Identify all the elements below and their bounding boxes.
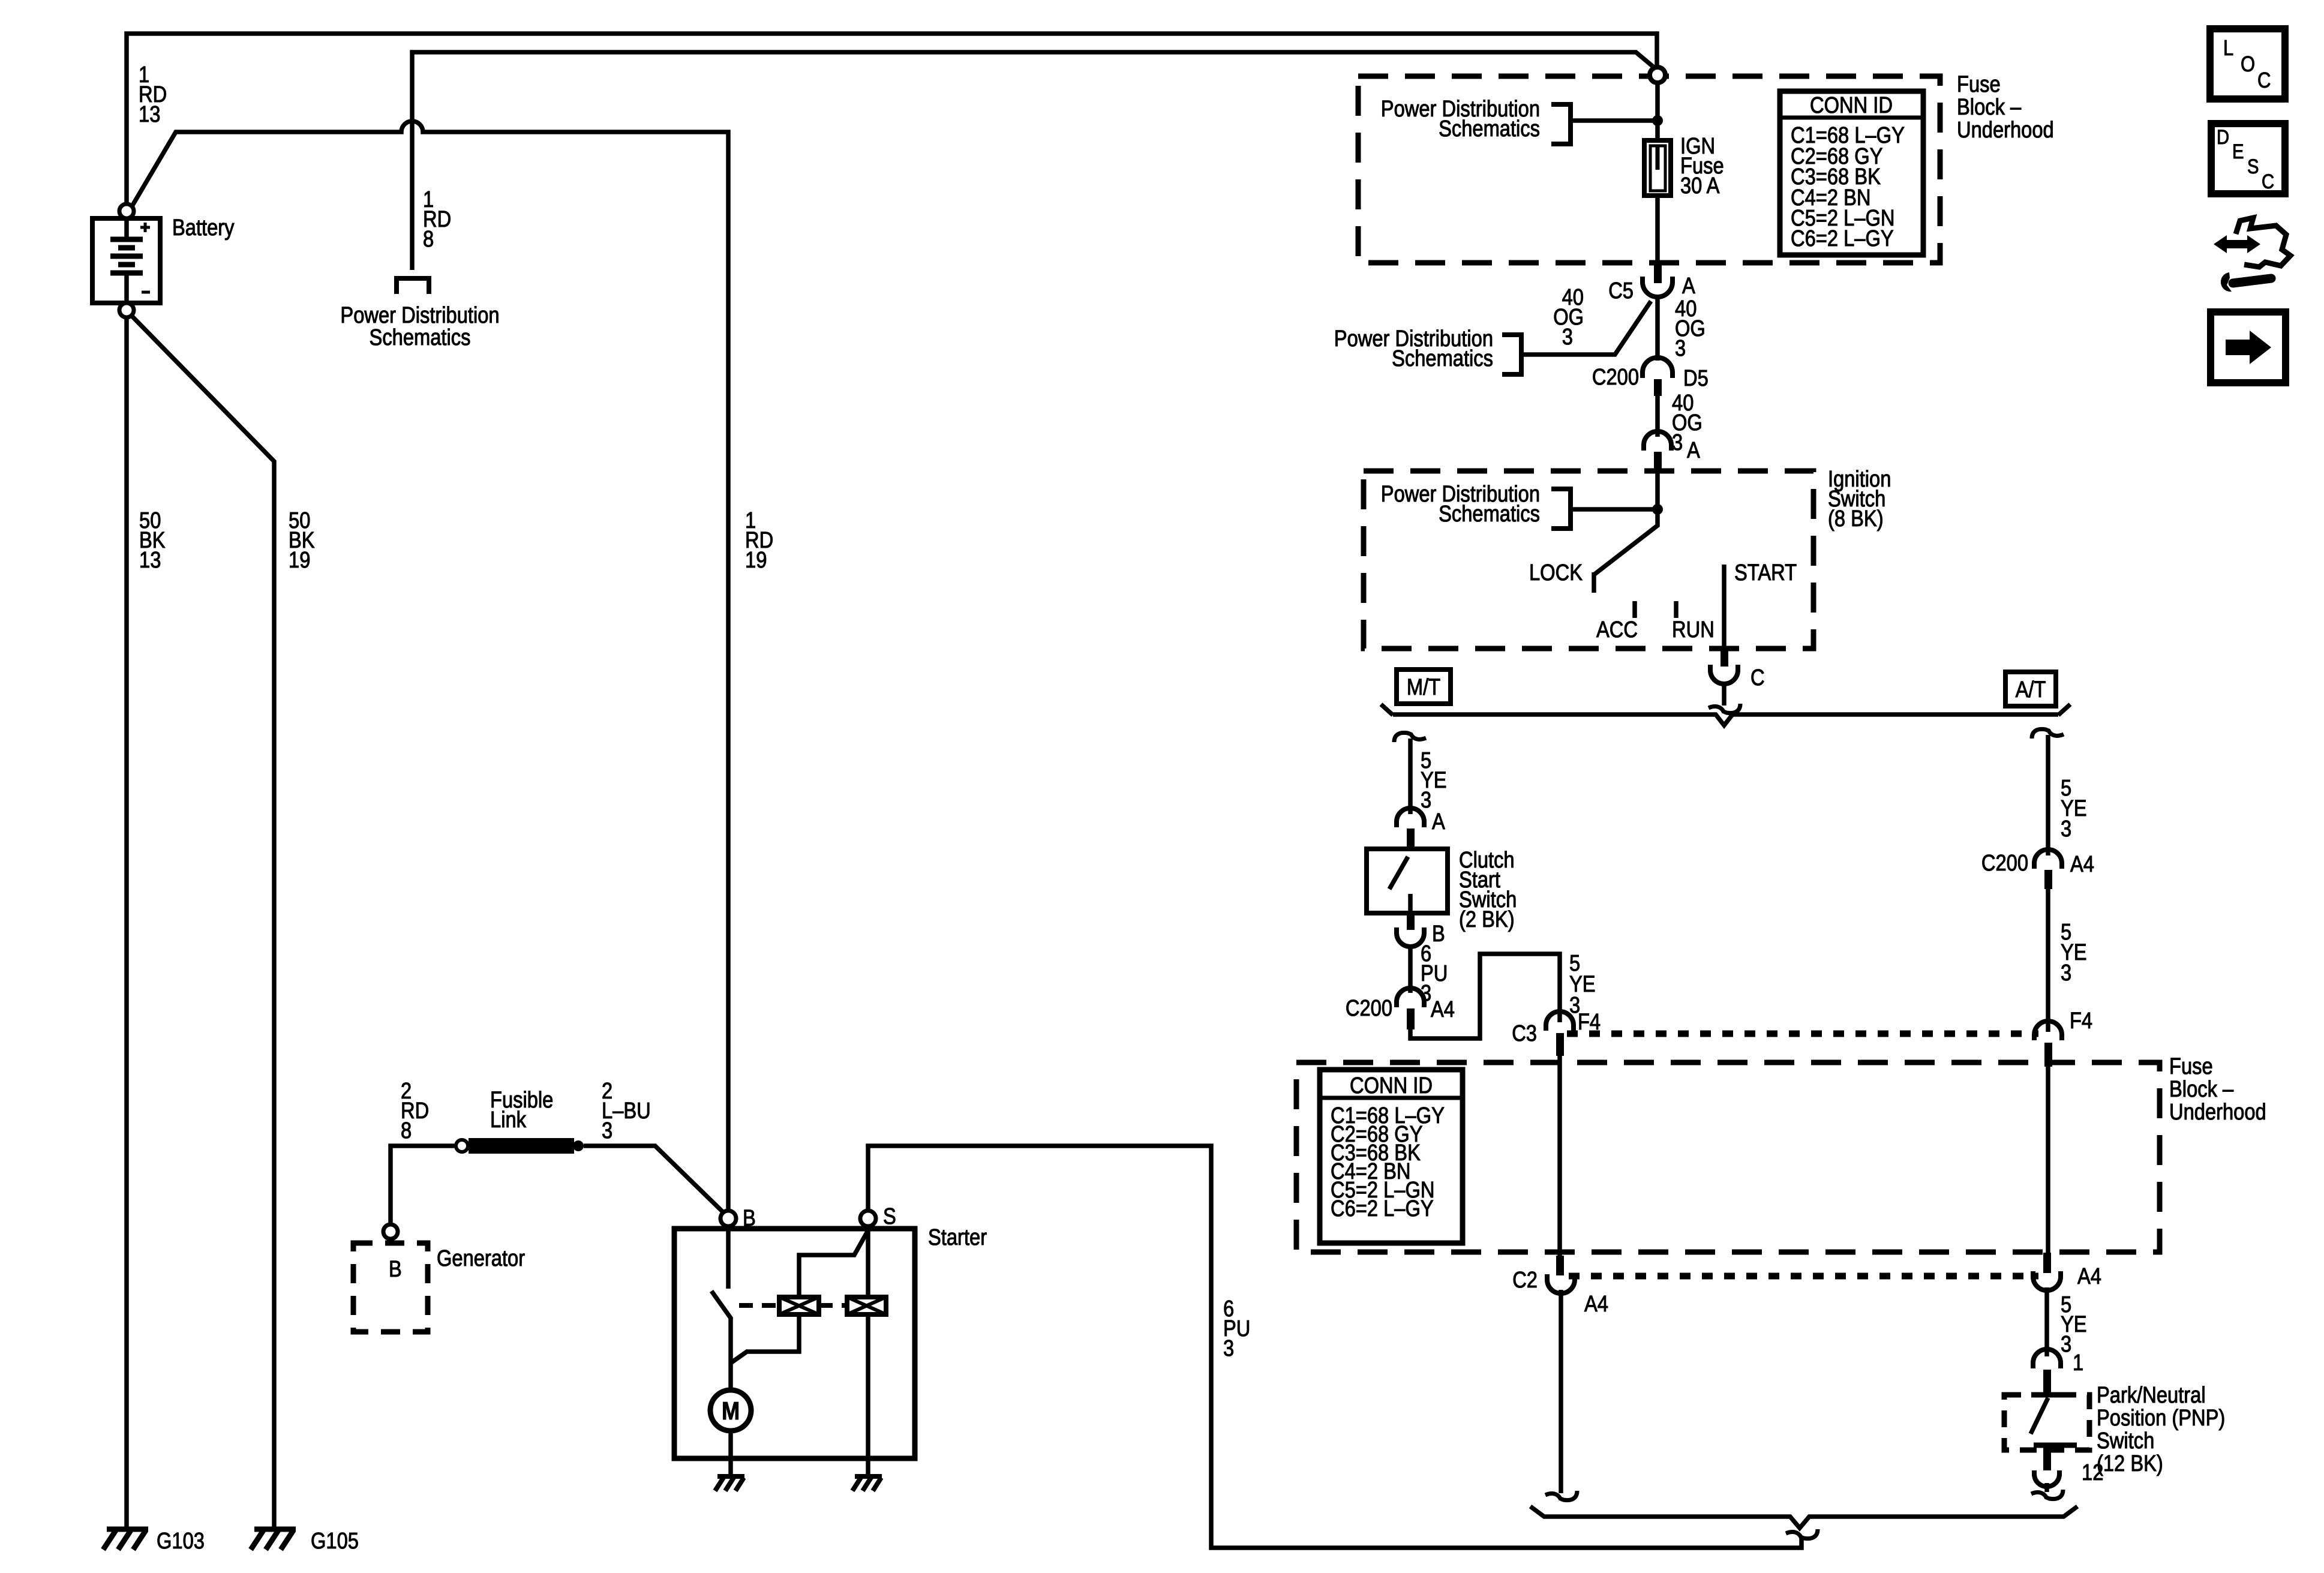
svg-text:B: B <box>743 1206 756 1231</box>
svg-text:A: A <box>1682 274 1695 299</box>
ground starter motor <box>715 1476 744 1491</box>
label D5 <box>1683 366 1709 391</box>
label 2 RD 8 <box>401 1079 429 1143</box>
battery <box>92 204 160 317</box>
ground G105 <box>251 1529 296 1550</box>
svg-text:C5: C5 <box>1608 278 1634 304</box>
wire C200 to ignition switch pin A <box>1655 396 1660 437</box>
wire battery negative to G103 <box>124 317 129 1529</box>
svg-text:A4: A4 <box>1584 1292 1608 1317</box>
svg-text:Block –: Block – <box>1957 95 2022 120</box>
svg-text:RUN: RUN <box>1672 617 1715 643</box>
svg-text:CONN ID: CONN ID <box>1810 93 1893 118</box>
label Power Distribution Schematics (fuse block) <box>1381 97 1540 142</box>
connector C200 pin A4 (M/T) <box>1397 988 1424 1029</box>
label Fusible Link <box>490 1088 553 1133</box>
svg-text:Schematics: Schematics <box>1439 502 1540 527</box>
svg-text:M: M <box>722 1397 740 1425</box>
connector C200 pin D5 <box>1643 358 1673 396</box>
label 40 OG 3 (left of C5) <box>1553 285 1584 350</box>
continuation curl at brace center <box>1786 1529 1818 1539</box>
continuation curl A/T branch <box>2032 729 2064 739</box>
wire A/T branch down to C200 <box>2046 735 2050 855</box>
svg-text:O: O <box>2241 52 2255 76</box>
svg-text:CONN ID: CONN ID <box>1350 1073 1433 1098</box>
svg-text:Schematics: Schematics <box>370 325 471 350</box>
connector C200 pin A4 (A/T) <box>2034 849 2062 889</box>
svg-text:A: A <box>1432 809 1445 834</box>
starter solenoid contact and motor wiring <box>711 1226 868 1476</box>
label A4 (C2) <box>1584 1292 1608 1317</box>
svg-text:D: D <box>2217 126 2229 149</box>
label 5 YE 3 (PNP) <box>2061 1292 2087 1357</box>
label Battery <box>172 215 235 241</box>
svg-text:A4: A4 <box>1431 997 1455 1022</box>
connector C5 pin A <box>1643 263 1673 297</box>
svg-text:C200: C200 <box>1346 996 1392 1021</box>
connector C2 pin A4 <box>1547 1256 1575 1293</box>
svg-text:C6=2 L–GY: C6=2 L–GY <box>1791 226 1894 251</box>
off-page bracket Power Distribution Schematics (40 OG branch) <box>1502 335 1521 374</box>
label 2 L-BU 3 <box>602 1079 651 1143</box>
label Starter <box>928 1225 987 1250</box>
svg-text:D5: D5 <box>1683 366 1709 391</box>
wire C200 to F4 <box>2046 889 2050 1032</box>
label C200 (M/T) <box>1346 996 1392 1021</box>
svg-text:19: 19 <box>745 548 767 573</box>
svg-text:A4: A4 <box>2070 852 2094 877</box>
ignition switch dashed box <box>1364 471 1813 649</box>
connector A4 below fuse block <box>2033 1253 2061 1290</box>
label 5 YE 3 (A/T upper) <box>2061 776 2087 842</box>
svg-text:Underhood: Underhood <box>2169 1100 2266 1125</box>
svg-text:Block –: Block – <box>2169 1077 2234 1102</box>
svg-text:B: B <box>389 1257 402 1282</box>
svg-text:Link: Link <box>490 1107 527 1133</box>
label C5 <box>1608 278 1634 304</box>
svg-text:S: S <box>2247 155 2259 178</box>
svg-text:Battery: Battery <box>172 215 235 241</box>
dotted connector row C2 to A4 <box>1569 1273 2038 1280</box>
connector 12 below PNP switch <box>2031 1470 2063 1499</box>
connector F4 at fuse block <box>2034 1021 2062 1067</box>
svg-text:8: 8 <box>423 227 434 252</box>
svg-text:Underhood: Underhood <box>1957 118 2054 143</box>
label 1 (PNP) <box>2073 1350 2083 1376</box>
wire battery positive to 1 RD 19 run with hop over 1RD8 <box>133 121 728 1211</box>
svg-text:C: C <box>2257 68 2271 92</box>
connector B below clutch switch <box>1397 913 1424 947</box>
svg-text:(8 BK): (8 BK) <box>1828 506 1884 532</box>
svg-text:3: 3 <box>2061 960 2071 986</box>
svg-text:Starter: Starter <box>928 1225 987 1250</box>
connector 1 at PNP switch <box>2033 1349 2061 1395</box>
wire C200 A4 route to C3 <box>1410 954 1560 1038</box>
label C3 <box>1512 1021 1537 1046</box>
label Ignition Switch (8 BK) <box>1828 467 1891 532</box>
label F4 (C3) <box>1578 1010 1601 1035</box>
off-page bracket Power Distribution Schematics (ignition switch) <box>1551 489 1663 529</box>
svg-text:A: A <box>1687 438 1700 463</box>
generator <box>353 1224 428 1332</box>
label 5 YE 3 (to C3) <box>1569 951 1596 1018</box>
label START <box>1734 560 1797 586</box>
icon DESC box <box>2211 124 2285 194</box>
park neutral position switch box <box>2004 1395 2089 1470</box>
svg-text:30 A: 30 A <box>1680 173 1720 199</box>
label Power Distribution Schematics (under battery) <box>340 303 499 350</box>
off-page bracket Power Distribution Schematics (fuse block) <box>1551 104 1663 144</box>
label 40 OG 3 (right below A) <box>1675 296 1706 361</box>
label 1 RD 8 <box>423 187 451 252</box>
svg-text:3: 3 <box>1562 325 1573 350</box>
svg-text:E: E <box>2232 140 2244 163</box>
label 6 PU 3 (bottom run) <box>1223 1296 1250 1361</box>
svg-text:F4: F4 <box>2070 1008 2092 1034</box>
wire C2 down to join brace <box>1559 1290 1563 1493</box>
label C200 (top) <box>1592 365 1639 390</box>
label A4 (A/T C200) <box>2070 852 2094 877</box>
starter terminal B <box>720 1211 736 1226</box>
dotted connector row C3 to F4 <box>1567 1031 2038 1037</box>
svg-text:B: B <box>1432 921 1445 947</box>
clutch start switch box <box>1367 849 1448 913</box>
svg-text:Switch: Switch <box>2097 1428 2154 1454</box>
wire generator B to fusible link <box>391 1146 457 1224</box>
label Fuse Block - Underhood (bottom) <box>2169 1054 2266 1125</box>
svg-text:LOCK: LOCK <box>1529 560 1583 586</box>
label B (generator) <box>389 1257 402 1282</box>
svg-text:C: C <box>1750 665 1765 691</box>
START contact wire <box>1722 565 1727 649</box>
label 6 PU 3 (clutch) <box>1421 941 1448 1006</box>
wire C5 to C200 <box>1655 298 1660 361</box>
svg-text:A4: A4 <box>2077 1264 2101 1289</box>
wire starter S to bottom run <box>868 1146 1801 1548</box>
svg-text:Fuse: Fuse <box>1957 72 2001 97</box>
ACC position tick <box>1632 601 1637 618</box>
svg-text:G105: G105 <box>311 1529 359 1554</box>
wire through fuse block F4 to A4 <box>2046 1067 2050 1257</box>
wire clutch B to C200 A4 <box>1408 946 1413 993</box>
starter terminal S <box>860 1211 876 1226</box>
continuation curl at C2 wire end <box>1545 1491 1577 1500</box>
label 5 YE 3 (A/T lower) <box>2061 920 2087 986</box>
label 5 YE 3 (M/T) <box>1421 748 1447 813</box>
svg-text:13: 13 <box>139 548 161 573</box>
svg-text:L: L <box>2223 35 2233 60</box>
ground starter solenoid <box>852 1476 882 1491</box>
svg-text:12: 12 <box>2082 1460 2103 1485</box>
svg-text:1: 1 <box>2073 1350 2083 1376</box>
wire branch diagonal to power distribution bracket <box>1521 301 1651 355</box>
wire fusible link to starter B <box>584 1146 726 1215</box>
fuse block underhood dashed box (bottom) <box>1296 1062 2160 1252</box>
svg-text:8: 8 <box>401 1118 412 1143</box>
label G103 <box>157 1529 205 1554</box>
ignition switch rotor blade to LOCK <box>1594 473 1658 593</box>
RUN position tick <box>1674 601 1679 618</box>
label B (clutch) <box>1432 921 1445 947</box>
label IGN Fuse 30 A <box>1680 134 1724 199</box>
label C (connector) <box>1750 665 1765 691</box>
label A4 (right dotted row) <box>2077 1264 2101 1289</box>
svg-text:S: S <box>883 1204 896 1229</box>
svg-text:Fuse: Fuse <box>2169 1054 2213 1079</box>
wire IGN fuse to C5 pin <box>1655 196 1660 265</box>
svg-text:C200: C200 <box>1981 851 2028 876</box>
ground G103 <box>103 1529 148 1550</box>
wire second bus from 1RD8 drop to fuse block node <box>412 52 1655 270</box>
label RUN <box>1672 617 1715 643</box>
icon LOC box <box>2210 29 2285 99</box>
label C200 (A/T) <box>1981 851 2028 876</box>
fusible link <box>456 1138 584 1154</box>
fuse block underhood dashed box (top) <box>1358 76 1940 263</box>
CONN ID table (top) <box>1780 91 1923 255</box>
svg-text:C200: C200 <box>1592 365 1639 390</box>
label C2 <box>1512 1268 1538 1293</box>
label Power Distribution Schematics (ignition switch) <box>1381 482 1540 527</box>
svg-text:3: 3 <box>1223 1336 1234 1361</box>
label LOCK <box>1529 560 1583 586</box>
svg-text:3: 3 <box>2061 816 2071 842</box>
label ACC <box>1596 617 1638 643</box>
svg-text:Schematics: Schematics <box>1439 116 1540 142</box>
svg-text:G103: G103 <box>157 1529 205 1554</box>
label 12 <box>2082 1460 2103 1485</box>
label A (clutch) <box>1432 809 1445 834</box>
svg-text:C6=2 L–GY: C6=2 L–GY <box>1331 1196 1434 1221</box>
label F4 (right) <box>2070 1008 2092 1034</box>
label 50 BK 13 <box>139 508 166 573</box>
svg-text:3: 3 <box>2061 1332 2071 1357</box>
label box A/T <box>2005 672 2056 706</box>
label 50 BK 19 <box>289 508 315 573</box>
label Clutch Start Switch (2 BK) <box>1459 848 1517 932</box>
wire M/T branch down to clutch switch <box>1408 739 1413 814</box>
label B (starter) <box>743 1206 756 1231</box>
CONN ID table (bottom) <box>1320 1070 1463 1243</box>
wire through fuse block C3 to C2 <box>1557 1056 1562 1259</box>
svg-text:C: C <box>2262 170 2274 193</box>
connector A at ignition switch <box>1644 431 1671 473</box>
svg-text:Power Distribution: Power Distribution <box>340 303 499 328</box>
svg-text:(2 BK): (2 BK) <box>1459 907 1515 932</box>
label S (starter) <box>883 1204 896 1229</box>
branch line M/T A/T split <box>1381 704 2070 725</box>
continuation curl M/T branch <box>1394 733 1426 742</box>
icon forward arrow box <box>2211 312 2286 383</box>
wire node to IGN fuse <box>1655 83 1660 140</box>
IGN fuse 30A <box>1644 140 1671 196</box>
svg-text:(12 BK): (12 BK) <box>2097 1451 2163 1476</box>
svg-text:A/T: A/T <box>2016 677 2046 703</box>
svg-text:19: 19 <box>289 548 310 573</box>
label A4 (M/T) <box>1431 997 1455 1022</box>
label Park/Neutral Position (PNP) Switch (12 BK) <box>2097 1383 2225 1476</box>
label 1 RD 13 <box>139 62 167 127</box>
svg-text:Position (PNP): Position (PNP) <box>2097 1406 2225 1431</box>
svg-text:ACC: ACC <box>1596 617 1638 643</box>
label Fuse Block - Underhood (top) <box>1957 72 2054 143</box>
label 1 RD 19 <box>745 508 773 573</box>
svg-text:Generator: Generator <box>437 1246 525 1271</box>
svg-text:C2: C2 <box>1512 1268 1538 1293</box>
svg-text:3: 3 <box>602 1118 612 1143</box>
svg-text:C3: C3 <box>1512 1021 1537 1046</box>
svg-text:3: 3 <box>1675 336 1686 361</box>
svg-text:Park/Neutral: Park/Neutral <box>2097 1383 2206 1408</box>
svg-text:M/T: M/T <box>1407 675 1440 700</box>
wire A4 to PNP pin 1 <box>2044 1287 2049 1356</box>
icon adjust arrows and wrench <box>2214 218 2290 292</box>
svg-text:13: 13 <box>139 102 160 127</box>
svg-text:Schematics: Schematics <box>1392 346 1493 371</box>
svg-text:START: START <box>1734 560 1797 586</box>
bottom rejoin brace <box>1530 1506 2077 1528</box>
solenoid pull-in winding <box>779 1297 819 1314</box>
label A (ignition) <box>1687 438 1700 463</box>
label 40 OG 3 (below D5) <box>1672 391 1703 455</box>
label Power Distribution Schematics (40 OG branch) <box>1334 326 1493 371</box>
wire battery negative diagonal to G105 <box>132 316 274 1529</box>
svg-text:3: 3 <box>1421 788 1431 813</box>
label A (C5) <box>1682 274 1695 299</box>
connector A at clutch start switch <box>1397 808 1424 851</box>
label Generator <box>437 1246 525 1271</box>
connector C3 pin F4 <box>1546 1011 1574 1056</box>
starter box <box>674 1229 915 1458</box>
connector C below ignition switch <box>1709 649 1740 713</box>
wire 1 RD 8 off-page symbol <box>397 278 429 294</box>
solenoid hold-in winding <box>847 1297 886 1314</box>
wire battery positive to top bus to fuse block node <box>127 34 1657 205</box>
label G105 <box>311 1529 359 1554</box>
node junction circle at fuse block feed <box>1650 67 1665 83</box>
starter motor M <box>710 1390 751 1476</box>
label box M/T <box>1397 670 1451 704</box>
